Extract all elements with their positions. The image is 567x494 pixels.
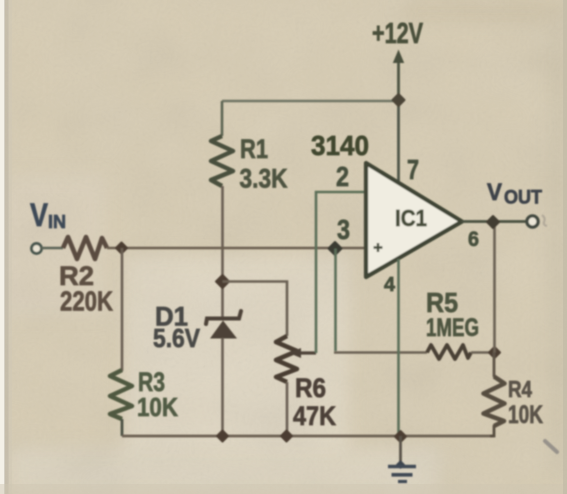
3140 part label bbox=[311, 130, 369, 161]
R3 value labels bbox=[137, 367, 178, 422]
resistor R5 bbox=[427, 345, 471, 359]
wire: main input run R2 to op-amp pin 3 bbox=[107, 247, 366, 250]
resistor R6 (rheostat body) bbox=[276, 336, 297, 382]
svg-text:V: V bbox=[487, 179, 502, 206]
svg-text:2: 2 bbox=[336, 161, 349, 192]
scan scratch mark bottom right bbox=[545, 441, 557, 452]
svg-text:R1: R1 bbox=[240, 134, 268, 164]
wire: R6 bottom to ground rail bbox=[286, 382, 289, 436]
wire: feedback node up to output bbox=[493, 222, 496, 353]
svg-text:10K: 10K bbox=[137, 392, 178, 422]
svg-text:+12V: +12V bbox=[372, 18, 423, 50]
junction dot: pin 3 node on main wire bbox=[329, 242, 342, 255]
pin 7 label bbox=[407, 154, 419, 185]
pin 3 label bbox=[337, 214, 350, 245]
wire: top rail from R1 top to +12V junction bbox=[222, 101, 398, 136]
wire: V+ down to op-amp pin 7 bbox=[397, 101, 400, 181]
svg-text:10K: 10K bbox=[508, 401, 543, 429]
junction dot: R2 / R3 node bbox=[116, 243, 127, 254]
svg-text:7: 7 bbox=[407, 154, 419, 185]
pin 4 wire: op-amp V- to ground rail bbox=[397, 259, 400, 436]
svg-text:R4: R4 bbox=[508, 376, 532, 402]
IC1 label bbox=[395, 205, 427, 231]
R2 value labels bbox=[59, 261, 113, 317]
wire: D1 cathode to ground rail bbox=[221, 338, 224, 436]
input terminal (VIN) bbox=[32, 244, 42, 254]
junction dot: pin4 / ground rail bbox=[395, 431, 406, 442]
R6 value labels bbox=[293, 373, 336, 431]
wire: feedback run to R5 bbox=[334, 351, 427, 354]
wire: R4 bottom to ground rail bbox=[490, 425, 494, 436]
zener diode D1 bbox=[206, 311, 241, 339]
op-amp plus symbol bbox=[374, 243, 383, 252]
svg-text:1MEG: 1MEG bbox=[426, 314, 479, 342]
svg-text:V: V bbox=[30, 197, 48, 233]
output terminal (VOUT) bbox=[527, 216, 538, 227]
junction dot: R5 / R4 / feedback node bbox=[489, 347, 500, 358]
+12V label bbox=[372, 18, 423, 50]
wire: op-amp pin 2 to R6 wiper bbox=[316, 192, 366, 353]
+12V supply arrow bbox=[393, 50, 404, 102]
wire: R5 to output node bbox=[471, 351, 495, 354]
R4 value labels bbox=[508, 376, 543, 429]
wire: op-amp output bbox=[462, 220, 527, 223]
resistor R3 bbox=[110, 370, 132, 419]
wire: pin 3 node down to feedback run bbox=[334, 249, 337, 352]
wire: D1 node to R6 top bbox=[223, 282, 288, 337]
pin 4 label bbox=[384, 274, 396, 296]
wire: R1 bottom through main wire down to D1 bbox=[221, 186, 224, 318]
VIN label bbox=[30, 197, 66, 233]
pin 2 label bbox=[336, 161, 349, 192]
pin 6 label bbox=[468, 228, 479, 251]
junction dot: R6 / ground rail bbox=[281, 431, 292, 442]
svg-text:6: 6 bbox=[468, 228, 479, 251]
resistor R1 bbox=[211, 136, 233, 186]
wire: VIN to R2 bbox=[41, 247, 63, 250]
svg-text:220K: 220K bbox=[60, 286, 113, 317]
svg-text:4: 4 bbox=[384, 274, 396, 296]
junction dot: output node bbox=[487, 216, 499, 228]
junction dot: D1 / ground rail bbox=[217, 431, 228, 442]
ground rail (bottom bus) bbox=[122, 435, 494, 438]
svg-text:3.3K: 3.3K bbox=[240, 164, 288, 194]
wire: node down to R3 bbox=[121, 248, 124, 371]
R6 wiper arrow bbox=[289, 348, 316, 358]
ground symbol bbox=[388, 436, 416, 482]
scan mark near VOUT bbox=[542, 215, 547, 226]
op-amp U1 (IC1) body bbox=[366, 163, 462, 277]
resistor R4 bbox=[484, 353, 505, 427]
R1 value labels bbox=[240, 134, 288, 194]
svg-text:3140: 3140 bbox=[311, 130, 369, 161]
R5 value labels bbox=[426, 287, 479, 342]
svg-text:OUT: OUT bbox=[504, 188, 542, 209]
svg-text:R6: R6 bbox=[295, 373, 326, 403]
junction dot: +12V / top rail bbox=[393, 94, 405, 106]
svg-text:3: 3 bbox=[337, 214, 350, 245]
resistor R2 bbox=[63, 237, 107, 259]
wire: R3 to ground rail corner bbox=[121, 419, 124, 436]
VOUT label bbox=[487, 179, 542, 209]
svg-text:IC1: IC1 bbox=[395, 205, 427, 231]
junction dot: D1 anode node on main wire branch bbox=[216, 275, 229, 288]
svg-text:5.6V: 5.6V bbox=[153, 323, 201, 353]
D1 labels bbox=[153, 302, 201, 354]
svg-text:IN: IN bbox=[48, 212, 66, 232]
svg-text:47K: 47K bbox=[293, 401, 336, 431]
